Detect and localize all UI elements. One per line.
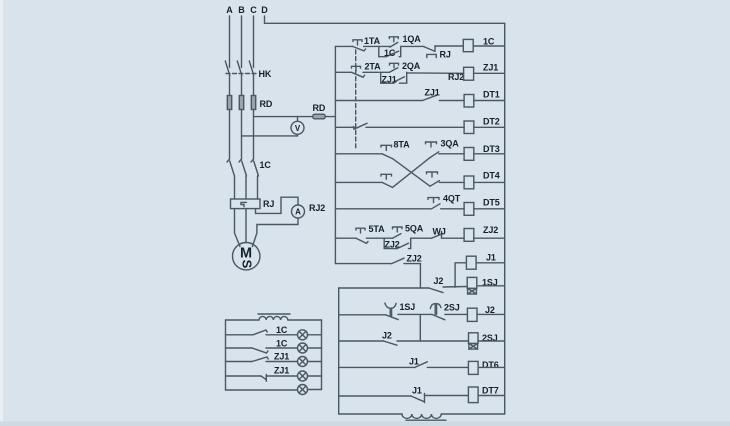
contact 1C seal-in [386,51,399,57]
svg-text:ZJ1: ZJ1 [425,88,440,98]
wire row13 right [478,366,505,368]
wire cross diag A [393,159,431,187]
thermal contact RJ riser [434,46,436,51]
wire row9 left [335,263,391,265]
lamp HD2 [298,343,308,353]
pushbutton 8TA contact [382,154,393,159]
pushbutton 2TA label [365,62,382,72]
svg-text:DT6: DT6 [482,360,499,370]
wire branch 1C bottom [379,56,386,58]
wire branch ZJ1 drop [380,72,382,83]
coil DT1 label [483,90,500,100]
delay contact 2SJ label [444,303,460,313]
pushbutton 3QA label [441,139,460,149]
pushbutton 8TA label [394,140,411,150]
coil ZJ2 label [483,225,498,235]
pushbutton 2QA actuator [390,63,399,68]
svg-text:1C: 1C [276,338,288,348]
svg-text:RJ2: RJ2 [309,203,325,213]
wire bus D top [265,16,505,23]
contact WJ blade [432,234,442,238]
coil ZJ2 [464,229,474,242]
fuse RD control [313,114,325,119]
svg-text:ZJ1: ZJ1 [274,352,289,362]
linkage dashed TA chain [355,50,357,150]
wire row5 left [335,153,382,155]
coil DT2 label [483,117,500,127]
contact ZJ2 seal-in label [385,240,400,250]
svg-text:RD: RD [313,103,326,113]
wire branch ZJ2 drop [383,238,385,248]
inductor bottom [402,414,441,418]
contactor 1C pole A [227,159,235,176]
coil 1C label [483,37,495,47]
wire control feed from C [254,116,313,118]
delay contact 1SJ cup [385,303,396,308]
wire phase A lower [234,176,236,199]
pushbutton 4QT contact [432,204,441,209]
pushbutton 1QA label [403,34,422,44]
svg-text:DT7: DT7 [482,386,499,396]
contact ZJ1 lamp row3 [226,357,298,362]
ladder left rail upper [334,46,336,263]
thermal relay RJ heater element [241,202,247,206]
wire row10 left [339,287,429,289]
svg-text:J1: J1 [409,357,419,367]
contact 1C lamp row2 [226,348,298,353]
contact ZJ1 row3 [422,95,436,100]
wire phase C mid2 [253,110,255,160]
coil 2SJ [469,333,479,344]
svg-text:ZJ2: ZJ2 [483,225,498,235]
delay contact 1SJ label [400,302,416,312]
coil 2SJ flag [469,344,478,350]
inductor lamp panel [259,316,288,320]
pushbutton 8TA actuator [381,145,392,150]
pushbutton 5QA label [405,224,424,234]
contact ZJ2 seal-in [397,243,409,248]
wire row13 b [427,366,468,368]
pushbutton 1TA label [364,36,381,46]
wire row2 a [363,71,390,73]
inductor lamp panel core [258,313,290,315]
wire row8 a [367,237,393,239]
svg-text:HK: HK [259,69,272,79]
svg-text:5TA: 5TA [369,224,386,234]
lamp panel top rail right [288,319,322,321]
pushbutton 5TA contact [356,238,368,243]
bottom rail left [339,413,402,415]
svg-text:RJ: RJ [263,199,274,209]
pushbutton 5QA actuator [393,227,403,232]
contact ZJ1 seal-in label [382,75,397,85]
contact J2 row10 label [434,276,444,286]
lamp HD4 [298,371,308,381]
wire row1 a [364,45,390,47]
wire phase B to motor [245,209,247,243]
svg-text:J2: J2 [434,276,444,286]
delay contact 2SJ arrow [430,304,441,315]
svg-text:A: A [295,208,301,217]
svg-text:ZJ1: ZJ1 [382,75,397,85]
contact ZJ1 lamp row4 [226,375,298,382]
wire row7 left [335,208,431,210]
wire row9 right [476,262,505,264]
svg-text:1TA: 1TA [364,36,381,46]
contactor 1C pole C [251,159,259,176]
wire row6 b [439,181,464,183]
coil DT7 [468,387,478,403]
fuse RD phase A [227,96,231,110]
wire control feed to rail [325,116,335,118]
svg-text:2QA: 2QA [402,61,421,71]
contact J1 row14 [411,396,425,402]
wire lamp row1 right [308,334,322,336]
wire branch ZJ2 bottom [384,248,397,250]
coil ZJ1 [464,67,474,80]
coil DT5 label [483,198,500,208]
wire row11 right [477,313,505,315]
wire row4 b [366,126,464,128]
lamp HD5 [298,385,308,395]
pushbutton 1TA actuator [353,40,362,45]
lamp panel bottom rail [226,389,298,391]
lamp row1 label 1C [276,325,288,335]
pushbutton 4QT label [443,194,461,204]
svg-text:ZJ2: ZJ2 [385,240,400,250]
thermal contact RJ label [440,50,451,60]
svg-text:1C: 1C [276,325,288,335]
coil J2 label [485,305,495,315]
pushbutton 5TA label [369,224,386,234]
wire riser row11 to row12 [419,315,421,341]
coil 1SJ flag [468,288,477,294]
wire row2 right [474,72,505,74]
svg-text:DT2: DT2 [483,117,500,127]
pushbutton 2TA actuator [352,66,361,71]
delay contact 1SJ stem [390,308,391,316]
thermal relay RJ label [263,199,274,209]
svg-text:1QA: 1QA [403,34,422,44]
pushbutton 5TA actuator [356,228,365,233]
coil DT1 [464,95,474,108]
motor M [233,243,260,270]
pushbutton 4QT actuator [428,198,439,203]
wire phase C ammeter loop [256,197,299,213]
delay contact 1SJ blade [386,315,399,320]
lower box left rail [338,288,340,414]
wire row8 c [442,237,465,239]
coil DT3 [464,148,474,161]
svg-text:J1: J1 [412,386,422,396]
wire phase A to motor [235,209,241,247]
contact J2 row12 [383,341,397,345]
svg-text:3QA: 3QA [441,139,460,149]
wire row6 right [474,181,505,183]
svg-text:RD: RD [260,99,273,109]
svg-text:5QA: 5QA [405,224,424,234]
wire phase A mid2 [229,110,231,160]
thermal contact RJ blade [424,47,435,52]
ladder right rail [504,23,506,414]
wire row1 b [401,45,424,47]
contact ZJ1 seal-in [394,77,405,82]
delay contact 2SJ blade [432,314,445,319]
pushbutton 1QA actuator [389,37,398,42]
node A label [226,5,233,15]
lamp row2 label 1C [276,338,288,348]
coil DT2 [464,121,474,134]
pushbutton 5QA contact [393,234,402,239]
contact WJ label [433,227,446,237]
wire row10 b [443,286,467,289]
contact ZJ2 row9 label [407,254,422,264]
svg-text:DT5: DT5 [483,198,500,208]
svg-text:J2: J2 [382,331,392,341]
wire row4 left [335,126,356,128]
contact J2 row12 label [382,331,392,341]
svg-text:C: C [250,5,257,15]
contact 1C lamp row1 [226,330,298,335]
contact TA row4 [354,123,368,129]
coil 2SJ label [482,333,498,343]
thermal contact RJ bracket [427,54,436,57]
coil 1C [463,39,473,51]
wire row12 right [478,340,505,342]
pushbutton 3QA2 contact [430,181,439,187]
wire row5 b [439,153,464,155]
wire lamp row4 right [308,375,322,377]
ammeter RJ2 label [309,203,325,213]
wire row12 b [397,340,469,342]
svg-text:DT3: DT3 [483,144,500,154]
switch HK linkage dashed [226,73,257,75]
coil J2 [467,308,477,321]
svg-text:1C: 1C [483,37,495,47]
pushbutton 3QA actuator [426,142,437,147]
wire row14 right [478,395,505,397]
svg-text:DT1: DT1 [483,90,500,100]
contact ZJ2 row9 [392,258,404,263]
pushbutton 1QA contact [390,42,398,47]
wire row11 left [339,314,386,316]
relay RJ2 label [448,72,464,82]
ammeter A [292,205,305,218]
wire ammeter return to motor [252,218,298,247]
wire phase C mid1 [253,76,255,96]
coil J1 label [486,253,496,263]
pushbutton 2QA contact [390,68,398,73]
switch HK pole B [237,61,242,76]
wire row2 b [407,72,464,74]
contact J2 row10 [429,288,443,293]
wire row11 b [445,313,468,315]
wire row9 a [404,263,420,265]
switch HK pole C [249,61,254,76]
svg-text:2SJ: 2SJ [444,303,460,313]
coil DT5 [464,203,474,216]
wire row12 left [339,340,384,342]
pushbutton 3QA2 actuator [427,172,438,177]
wire phase B mid1 [241,76,243,96]
svg-text:B: B [238,5,245,15]
inductor bottom core [406,419,446,421]
svg-text:J2: J2 [485,305,495,315]
contactor 1C pole B [239,159,247,176]
fuse RD phase B [239,96,243,110]
lamp panel left rail [225,320,227,390]
fuse RD label [260,99,273,109]
pushbutton 3QA contact [430,152,439,158]
contact J1 row14 label [412,386,422,396]
wire row1 right [473,45,505,47]
wire riser row10 to J1 [455,263,466,287]
coil DT4 [464,176,474,189]
coil 1SJ [467,277,477,288]
wire row8 b [411,237,432,239]
wire branch ZJ1 riser [400,72,407,83]
svg-text:S: S [239,260,254,269]
svg-text:ZJ1: ZJ1 [483,63,498,73]
wire row3 right [474,100,505,102]
wire row8 right [474,237,505,239]
pushbutton 1TA contact [353,46,366,51]
lamp row3 label ZJ1 [274,352,289,362]
wire phase C lower [257,176,259,199]
wire row7 b [441,208,464,210]
fuse RD phase C [251,96,255,110]
wire phase C upper [253,16,255,68]
wire row3 b [439,100,464,102]
pushbutton 8TA2 actuator [381,174,392,179]
pushbutton 2QA label [402,61,421,71]
wire row2 left [335,71,351,73]
wire phase B upper [241,16,243,68]
wire lamp row5 right [308,389,322,391]
coil 1SJ label [482,278,498,288]
wire row1 c [435,45,463,47]
svg-text:1C: 1C [384,48,396,58]
wire row3 left [335,100,422,102]
svg-text:2TA: 2TA [365,62,382,72]
coil DT7 label [482,386,499,396]
svg-text:1C: 1C [260,160,272,170]
wire branch 1C drop [378,46,380,56]
coil DT6 label [482,360,499,370]
contact J1 row13 [415,362,427,368]
switch HK pole A [225,61,230,76]
contact WJ anvil [441,232,443,239]
lamp row4 label ZJ1 [274,366,289,376]
contact J1 row13 label [409,357,419,367]
svg-text:ZJ2: ZJ2 [407,254,422,264]
coil ZJ1 label [483,63,498,73]
svg-text:V: V [295,124,301,133]
svg-text:RJ2: RJ2 [448,72,464,82]
svg-text:J1: J1 [486,253,496,263]
svg-text:RJ: RJ [440,50,451,60]
wire lamp row3 right [308,361,322,363]
wire phase A mid1 [229,76,231,96]
node C label [250,5,257,15]
svg-text:A: A [226,5,233,15]
wire riser row9 to row10 [419,264,421,288]
svg-text:D: D [261,5,268,15]
wire cross diag B [393,158,431,188]
wire phase B mid2 [241,110,243,160]
thermal relay RJ box [231,199,261,209]
fuse RD control label [313,103,326,113]
bottom rail right [441,413,505,415]
wire row8 left [335,237,356,239]
coil DT3 label [483,144,500,154]
switch HK label [259,69,272,79]
wire row14 left [339,395,411,397]
coil DT6 [468,361,478,374]
wire phase A upper [229,16,231,68]
wire row10 right [477,285,505,287]
lamp panel top rail [226,319,260,321]
voltmeter V [291,121,304,134]
svg-text:1SJ: 1SJ [400,302,416,312]
svg-text:WJ: WJ [433,227,446,237]
wire lamp row2 right [308,347,322,349]
pushbutton 2TA contact [352,72,365,77]
pushbutton 8TA2 contact [382,182,393,187]
wire row13 left [339,366,415,368]
svg-text:4QT: 4QT [443,194,461,204]
wire branch ZJ2 riser [409,238,411,248]
wire row11 a [398,313,432,315]
svg-text:8TA: 8TA [394,140,411,150]
lamp HD1 [298,330,308,340]
wire branch 1C riser [399,46,401,56]
svg-text:ZJ1: ZJ1 [274,366,289,376]
node D label [261,5,268,15]
wire voltmeter to B [242,134,298,136]
contactor 1C label [260,160,272,170]
wire row14 b [425,395,469,397]
wire row5 right [474,153,505,155]
lamp panel right rail [321,320,323,390]
wire branch ZJ1 bottom [381,82,394,84]
node B label [238,5,245,15]
wire phase B lower [245,176,247,199]
wire row7 right [474,208,505,210]
wire row4 right [474,126,505,128]
coil DT4 label [483,171,500,181]
contact ZJ1 row3 label [425,88,440,98]
voltmeter V stem [297,117,299,122]
contact 1C seal-in label [384,48,396,58]
svg-text:DT4: DT4 [483,171,500,181]
contact J1 row14 anvil [424,393,426,402]
lamp HD3 [298,357,308,367]
wire row6 left [335,181,382,183]
coil J1 [466,256,476,269]
wire row1 left [335,45,352,47]
